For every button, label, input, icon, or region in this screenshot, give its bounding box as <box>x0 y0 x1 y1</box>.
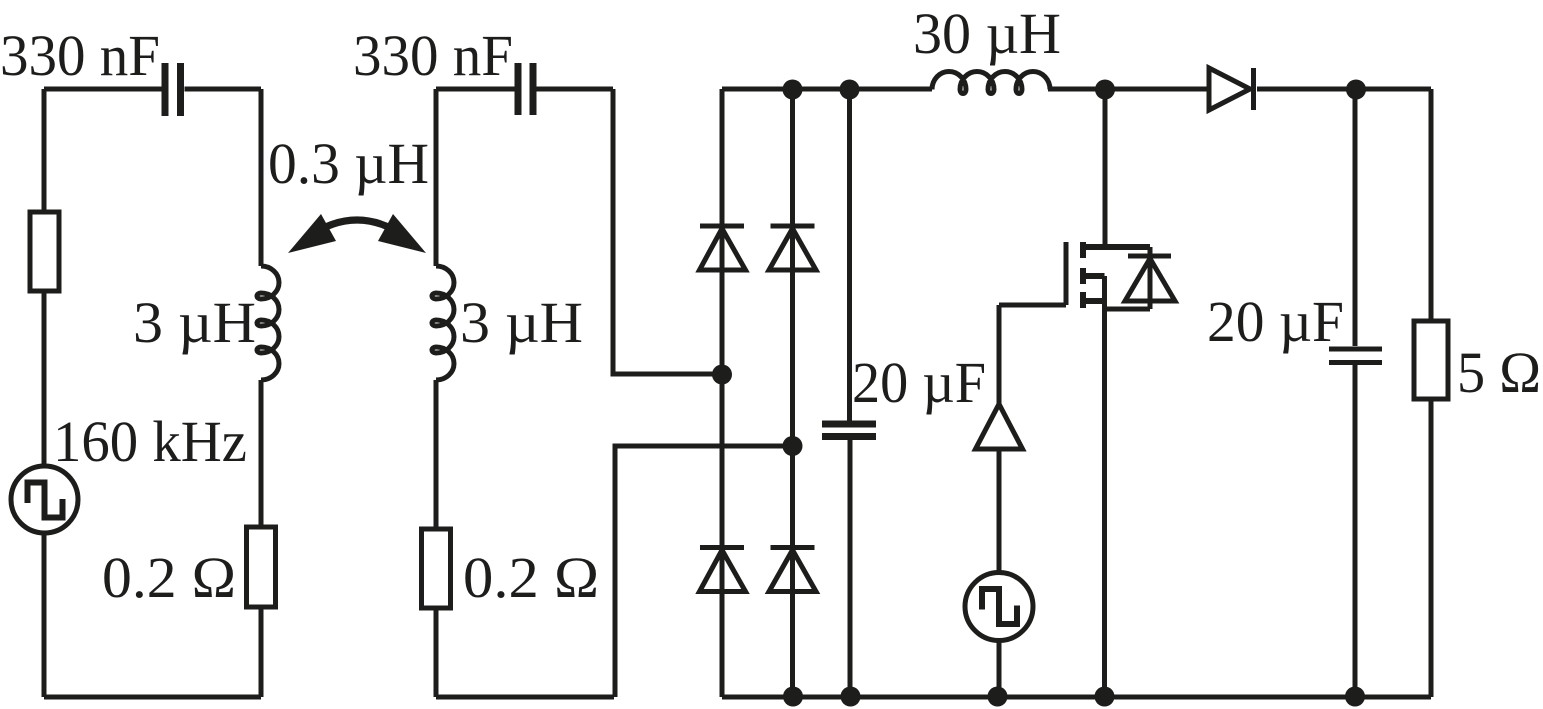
node dot top drain <box>1095 80 1115 100</box>
wire secondary left rail upper <box>434 89 439 266</box>
wire converter bottom rail <box>722 695 1431 700</box>
wire secondary output upper (to bridge node A) <box>613 89 722 374</box>
wire right rail lower <box>1429 399 1434 697</box>
wire primary top rail right of C1 <box>185 87 262 92</box>
inductor L1 3 uH (primary coil) <box>257 266 279 380</box>
capacitor C3 branch lower wire <box>848 440 853 697</box>
node dot bottom source <box>1095 687 1115 707</box>
wire primary left rail upper <box>42 89 47 212</box>
svg-text:0.2 Ω: 0.2 Ω <box>463 545 599 610</box>
diode D4 (bridge leg2 lower) <box>769 548 816 592</box>
source V1 square-wave glyph <box>28 483 63 518</box>
svg-text:30 µH: 30 µH <box>913 1 1061 66</box>
wire primary right rail upper <box>259 89 264 266</box>
source V2 (gate pulse source circle) <box>965 573 1033 641</box>
wire gate down to driver <box>997 305 1002 404</box>
wire MOSFET drain <box>1103 89 1108 247</box>
inductor L2 3 uH (secondary coil) <box>432 266 454 380</box>
wire secondary left rail middle <box>434 380 439 529</box>
node dot top C3 <box>840 80 860 100</box>
node dot bottom leg2 <box>783 687 803 707</box>
wire top rail diode to right corner <box>1257 87 1431 92</box>
node dot top leg2 <box>783 80 803 100</box>
resistor R4 5 ohm (load) <box>1414 321 1448 399</box>
node dot bottom pulse <box>988 687 1008 707</box>
capacitor C4 20 uF branch upper wire <box>1353 89 1358 346</box>
wire gate lead <box>999 303 1066 308</box>
wire secondary top rail right of C2 <box>537 87 614 92</box>
gate driver buffer (triangle) <box>976 404 1023 449</box>
wire primary top rail left of C1 <box>44 87 162 92</box>
wire pulse source to bottom rail <box>997 640 1002 697</box>
diode D1 (bridge leg1 upper) <box>700 226 746 270</box>
wire MOSFET source to bottom rail <box>1102 309 1107 697</box>
wire secondary top rail left of C2 <box>436 87 515 92</box>
capacitor C3 20 uF branch upper wire <box>847 89 852 421</box>
svg-text:3 µH: 3 µH <box>133 290 256 355</box>
wire primary left rail middle <box>42 291 47 466</box>
wire secondary left rail lower <box>434 608 439 697</box>
wire secondary bottom rail <box>436 695 614 700</box>
svg-text:20 µF: 20 µF <box>852 350 986 415</box>
capacitor C4 branch lower wire <box>1353 365 1358 697</box>
mutual coupling arrow arc <box>308 220 406 237</box>
wire right rail upper <box>1429 89 1434 321</box>
resistor R2 0.2 ohm (primary) <box>247 527 276 607</box>
wire secondary output lower (to bridge node B) <box>615 446 793 697</box>
node B dot (bridge leg2 mid) <box>783 436 803 456</box>
diode D2 (bridge leg2 upper) <box>769 226 816 270</box>
svg-text:0.2 Ω: 0.2 Ω <box>102 545 236 610</box>
capacitor C3 20 uF plates <box>822 424 876 437</box>
svg-text:160 kHz: 160 kHz <box>53 409 247 474</box>
node A dot (bridge leg1 mid) <box>712 365 732 385</box>
wire primary left rail lower <box>42 533 47 697</box>
wire bridge leg 2 <box>790 89 795 697</box>
source V2 square-wave glyph <box>982 589 1017 624</box>
node dot top C4 <box>1346 80 1366 100</box>
diode D5 (freewheel/series diode) <box>1209 68 1254 110</box>
svg-text:5 Ω: 5 Ω <box>1457 340 1541 405</box>
body diode of Q1 <box>1125 256 1175 301</box>
mutual arrow left head <box>288 214 336 253</box>
wire top rail bridge to inductor <box>722 87 932 92</box>
capacitor C1 330 nF (primary series cap) <box>165 63 181 116</box>
resistor R1 (primary source resistor) <box>30 212 59 291</box>
node dot bottom C4 <box>1345 687 1365 707</box>
capacitor C4 20 uF plates <box>1329 349 1382 363</box>
node dot bottom C3 <box>841 687 861 707</box>
wire primary bottom rail <box>44 695 261 700</box>
svg-text:330 nF: 330 nF <box>353 23 513 88</box>
diode D3 (bridge leg1 lower) <box>700 548 746 592</box>
wire top rail inductor to diode D5 <box>1048 87 1209 92</box>
wire bridge leg 1 <box>720 89 725 697</box>
wire primary right rail middle <box>259 380 264 527</box>
svg-text:0.3 µH: 0.3 µH <box>268 131 429 196</box>
svg-text:20 µF: 20 µF <box>1207 289 1344 354</box>
wire primary right rail lower <box>259 607 264 697</box>
resistor R3 0.2 ohm (secondary) <box>422 529 451 608</box>
transistor Q1 (N-MOSFET) <box>1066 242 1150 309</box>
mutual arrow right head <box>378 214 426 253</box>
inductor L3 30 uH (buck inductor) <box>932 72 1050 94</box>
svg-text:3 µH: 3 µH <box>460 290 583 355</box>
svg-text:330 nF: 330 nF <box>0 23 160 88</box>
wire driver to pulse source <box>997 449 1002 572</box>
source V1 160 kHz (square-wave source circle) <box>11 466 78 533</box>
capacitor C2 330 nF (secondary series cap) <box>518 63 533 115</box>
